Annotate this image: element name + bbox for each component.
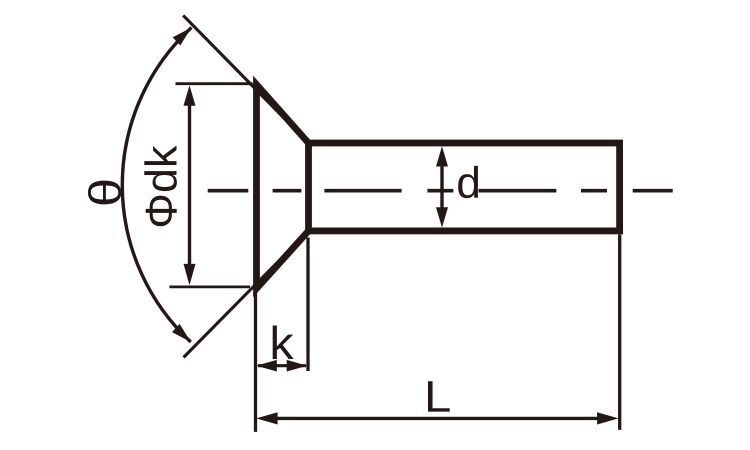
rivet countersunk head outline [257,85,309,289]
extension line k left / L left [254,292,257,432]
centerline (dash-dot axis) [208,189,673,193]
rivet shank outline [309,143,620,231]
theta arc arrowhead bottom [172,324,195,346]
extension line k right [306,238,309,372]
construction line top (cone angle extension) [183,15,308,143]
extension line Phi-dk top [176,82,253,85]
extension line L right [618,235,621,430]
theta arc arrowhead top [173,23,196,45]
dimension line Phi-dk (vertical, double arrow) [184,85,196,285]
label L [428,381,450,411]
dimension line L (horizontal, double arrow) [256,412,618,424]
construction line bottom (cone angle extension) [184,231,309,358]
label k [273,326,294,359]
label Phi-dk [144,145,177,226]
dimension k (horizontal, outward arrowheads) [256,360,307,372]
label d [458,166,478,198]
dimension line d (vertical, double arrow) [436,146,448,227]
extension line Phi-dk bottom [169,285,250,288]
theta angle arc (double arrow) [122,28,191,343]
label theta [88,181,121,205]
